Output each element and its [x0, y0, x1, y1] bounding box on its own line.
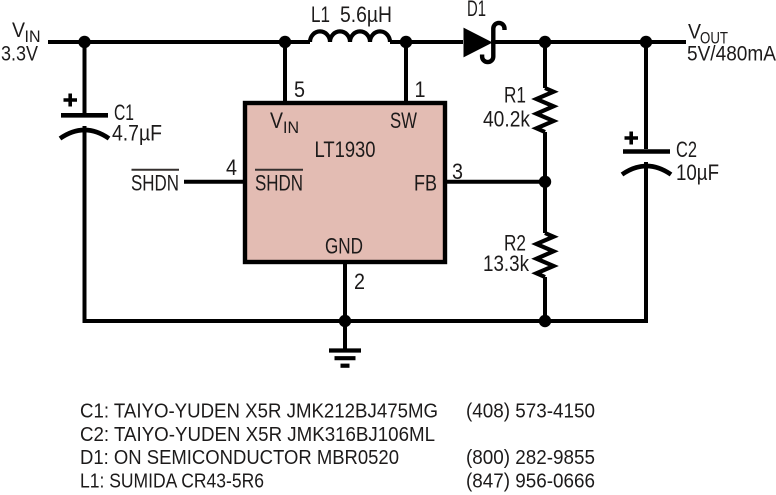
wire top rail right segment [491, 40, 686, 44]
svg-text:C2: TAIYO-YUDEN X5R JMK316BJ10: C2: TAIYO-YUDEN X5R JMK316BJ106ML [80, 424, 435, 446]
capacitor C1 curved plate [60, 130, 109, 139]
wire bottom rail [83, 319, 649, 323]
node junction FB/R1/R2 [539, 176, 551, 188]
svg-text:40.2k: 40.2k [483, 107, 531, 132]
svg-text:SHDN: SHDN [255, 171, 303, 196]
node junction Vout / C2 [640, 36, 652, 48]
svg-text:13.3k: 13.3k [483, 251, 530, 276]
svg-text:R1: R1 [504, 83, 526, 108]
svg-text:IN: IN [283, 119, 299, 137]
svg-text:L1: L1 [311, 2, 330, 27]
svg-text:C2: C2 [676, 137, 697, 162]
svg-text:3: 3 [452, 159, 463, 184]
svg-text:1: 1 [415, 77, 426, 102]
svg-text:4.7µF: 4.7µF [112, 121, 162, 146]
svg-text:4: 4 [226, 155, 237, 180]
svg-text:3.3V: 3.3V [1, 43, 38, 66]
node junction D1 / R1 [539, 36, 551, 48]
svg-text:V: V [12, 19, 25, 42]
wire pin1 stub [404, 42, 408, 101]
svg-text:5: 5 [294, 77, 305, 102]
wire pin2 GND stub [343, 262, 347, 321]
svg-text:2: 2 [354, 269, 365, 294]
wire top rail middle segment [390, 40, 463, 44]
wire R1 bottom to R2 top [543, 132, 547, 233]
wire top rail left segment [48, 40, 310, 44]
node junction L1 left / pin 5 [279, 36, 291, 48]
wire pin5 stub [283, 42, 287, 101]
svg-text:V: V [270, 108, 283, 133]
svg-text:L1: SUMIDA CR43-5R6: L1: SUMIDA CR43-5R6 [80, 470, 264, 492]
svg-text:10µF: 10µF [676, 160, 719, 185]
capacitor C1 plus [64, 94, 78, 107]
svg-text:(800) 282-9855: (800) 282-9855 [466, 447, 595, 469]
node junction R2/rail [539, 315, 551, 327]
node junction pin2/rail [339, 315, 351, 327]
svg-text:SW: SW [390, 108, 417, 133]
svg-text:LT1930: LT1930 [315, 137, 376, 162]
wire FB to divider [445, 180, 545, 184]
capacitor C2 top plate [623, 149, 670, 154]
capacitor C2 curved plate [622, 166, 671, 175]
wire C1 branch lower [83, 126, 87, 323]
diode D1 schottky cathode [482, 23, 504, 62]
svg-text:D1: ON SEMICONDUCTOR MBR0520: D1: ON SEMICONDUCTOR MBR0520 [80, 447, 399, 469]
svg-text:(847) 956-0666: (847) 956-0666 [466, 470, 595, 492]
capacitor C2 plus [625, 132, 639, 145]
node junction L1 right / pin 1 [400, 36, 412, 48]
svg-text:C1: TAIYO-YUDEN X5R JMK212BJ47: C1: TAIYO-YUDEN X5R JMK212BJ475MG [80, 401, 438, 423]
wire SHDN input [184, 180, 245, 184]
wire R2 bottom [543, 277, 547, 321]
inductor L1 [310, 31, 390, 42]
op-amp U1 LT1930 body [245, 103, 445, 262]
svg-text:5.6µH: 5.6µH [340, 2, 392, 27]
svg-text:5V/480mA: 5V/480mA [687, 43, 776, 66]
svg-text:GND: GND [325, 234, 363, 259]
wire R1 top [543, 42, 547, 88]
svg-text:D1: D1 [467, 0, 486, 21]
wire C1 branch upper [83, 42, 87, 113]
resistor R2 [537, 233, 554, 277]
capacitor C1 top plate [61, 113, 108, 118]
ground symbol [343, 321, 347, 350]
svg-text:SHDN: SHDN [131, 171, 179, 196]
diode D1 [464, 29, 492, 57]
node junction Vin/C1 [78, 36, 90, 48]
svg-text:(408) 573-4150: (408) 573-4150 [466, 401, 595, 423]
wire C2 branch lower [644, 162, 648, 323]
wire C2 branch upper [644, 42, 648, 149]
svg-text:FB: FB [414, 171, 437, 196]
resistor R1 [537, 88, 554, 132]
